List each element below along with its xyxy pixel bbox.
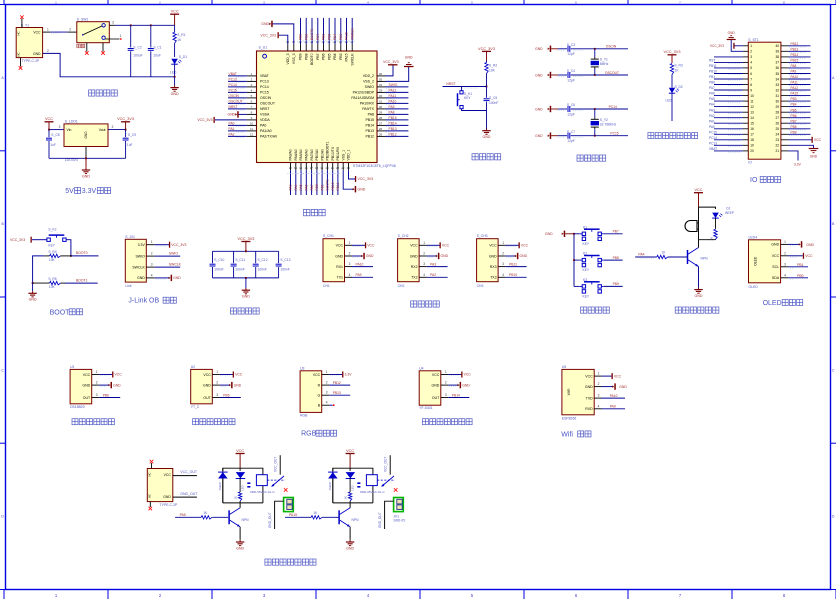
io pin 27 PB6 [781, 114, 811, 119]
svg-text:K3: K3 [583, 278, 587, 282]
buzzer B1 [685, 221, 699, 232]
connector LED4 OLED body [749, 235, 781, 289]
svg-text:VDD_2: VDD_2 [363, 74, 374, 78]
svg-text:22: 22 [336, 166, 340, 170]
svg-text:PA9: PA9 [356, 273, 362, 277]
svg-text:VCC_OUT: VCC_OUT [274, 457, 278, 472]
caption 继电器控制电路 [265, 559, 271, 565]
wire PA15 base net [285, 511, 339, 519]
ch1 pin 1 VCC [345, 241, 376, 249]
relay LED PA5 [236, 472, 246, 490]
svg-text:VCC: VCC [367, 244, 375, 248]
svg-text:2: 2 [349, 252, 351, 256]
svg-text:LED: LED [240, 485, 244, 490]
svg-text:PA3/A0: PA3/A0 [289, 149, 293, 160]
svg-text:KEY: KEY [48, 244, 55, 248]
wire LDO input [48, 125, 64, 131]
power flag VCC_3V3 indicator [664, 50, 681, 63]
svg-text:DS18B20: DS18B20 [70, 405, 85, 409]
io pin 11 PA5 [709, 97, 748, 102]
svg-text:25: 25 [775, 127, 779, 131]
svg-text:VCC: VCC [585, 374, 593, 378]
svg-text:3.3V: 3.3V [794, 163, 802, 167]
module U5 ESP8266 body [562, 365, 594, 420]
svg-text:Vin: Vin [67, 128, 72, 132]
svg-text:PB1: PB1 [709, 75, 715, 79]
svg-text:100nF: 100nF [489, 101, 498, 105]
mcu pin 23 VSS_1 [341, 163, 345, 171]
power flag VCC_3V3 at VDD_1 [349, 170, 374, 182]
svg-text:30: 30 [775, 99, 779, 103]
connector TYPE-C-2P relay power [147, 460, 178, 511]
ch3 pin 1 VCC [498, 241, 529, 249]
power flag VCC_3V3 at VDD_2 [383, 60, 399, 76]
mcu pin 36 VDD_2 [377, 72, 386, 76]
wire PB8 net [604, 256, 623, 260]
svg-text:2: 2 [112, 125, 114, 129]
svg-text:23: 23 [341, 166, 345, 170]
svg-text:PA9/TX: PA9/TX [362, 107, 374, 111]
svg-text:12pF: 12pF [567, 139, 575, 143]
ch1 pin 4 PA9 [345, 273, 374, 278]
relay coil resistor 1K PA5 [234, 478, 242, 503]
svg-text:GND: GND [806, 243, 814, 247]
U1 pin 2 GND [92, 381, 121, 389]
svg-text:PB0: PB0 [797, 274, 804, 278]
svg-text:2: 2 [326, 381, 328, 385]
U3 pin 4 DOT [322, 401, 335, 406]
svg-text:33: 33 [379, 88, 383, 92]
svg-text:SRD-05VDC-SL-C: SRD-05VDC-SL-C [250, 490, 276, 494]
io pin 26 PB7 [781, 119, 811, 124]
ground bracket at VSSA pin 8 [227, 111, 246, 117]
mcu pin 32 PA11/USB/DM [377, 94, 408, 99]
svg-text:VCC: VCC [115, 373, 123, 377]
io pin 23 power [781, 139, 789, 141]
ch2 pin 2 GND [419, 252, 448, 260]
io pin 3 stub [743, 56, 748, 58]
svg-text:PB11: PB11 [509, 262, 517, 266]
svg-text:PB0/A0: PB0/A0 [315, 149, 319, 161]
svg-text:12pF: 12pF [567, 112, 575, 116]
ch3 pin 4 PB10 [498, 273, 526, 278]
svg-text:GND: GND [483, 135, 491, 139]
svg-text:PB2/BOOT1: PB2/BOOT1 [326, 142, 330, 161]
ground GND reset [482, 111, 491, 140]
svg-text:GND_OUT: GND_OUT [268, 512, 272, 528]
svg-text:PB5: PB5 [791, 108, 797, 112]
wifi pin 4 PA9 [594, 404, 625, 409]
svg-text:36: 36 [379, 72, 383, 76]
svg-text:PC13: PC13 [709, 141, 717, 145]
pushbutton K2 KEY [574, 252, 604, 272]
svg-text:VDD_3: VDD_3 [286, 53, 290, 64]
mcu pin 48 VDD_3 [286, 40, 290, 51]
svg-text:PB15: PB15 [791, 59, 799, 63]
svg-text:PA10: PA10 [791, 75, 799, 79]
svg-text:PC14: PC14 [229, 83, 237, 87]
U4 pin 2 GND [441, 381, 470, 389]
svg-text:13: 13 [289, 166, 293, 170]
svg-text:5V: 5V [65, 188, 74, 195]
svg-text:26: 26 [775, 122, 779, 126]
transistor emitter ground PA15 [346, 527, 355, 551]
io pin 6 PB10 [709, 70, 748, 75]
svg-text:PC15: PC15 [260, 91, 269, 95]
svg-text:1uF: 1uF [127, 143, 133, 147]
svg-text:PB5: PB5 [327, 34, 331, 40]
io pin 40 PB12 [781, 42, 811, 47]
svg-text:LED4: LED4 [749, 235, 758, 239]
svg-text:S_D2: S_D2 [675, 85, 683, 89]
svg-text:S_R1: S_R1 [177, 33, 185, 37]
power flag VCC at LDO input [45, 117, 54, 129]
resistor S_R1 1K [173, 25, 186, 57]
svg-text:4: 4 [784, 273, 786, 277]
svg-text:GND: GND [410, 254, 418, 258]
module U1 body [70, 365, 92, 409]
svg-text:GND: GND [173, 276, 181, 280]
svg-text:1K: 1K [234, 496, 238, 500]
svg-text:PA7: PA7 [709, 86, 715, 90]
jlink pin 2 SWIO [146, 252, 180, 257]
mcu pin 17 PA7/A0 [310, 163, 314, 196]
power flag VCC relay PA15 [346, 449, 355, 468]
svg-text:PA15: PA15 [345, 32, 349, 40]
svg-text:PA0: PA0 [709, 125, 715, 129]
svg-text:S_C9: S_C9 [128, 133, 136, 137]
svg-text:40: 40 [775, 44, 779, 48]
wire net PC14 [594, 105, 628, 110]
mcu pin 24 VDD_1 [347, 163, 351, 171]
svg-text:2: 2 [216, 381, 218, 385]
mcu pin 31 PA10/RX [377, 99, 408, 104]
U2 pin 2 GND [212, 381, 241, 389]
svg-text:28: 28 [379, 116, 383, 120]
io pin 16 PA0 [709, 125, 748, 130]
svg-text:PB6: PB6 [322, 53, 326, 60]
svg-text:GND: GND [29, 298, 37, 302]
wire alarm top node [699, 207, 716, 240]
ground bracket S_C6 row [535, 106, 567, 112]
svg-text:PA1: PA1 [709, 119, 715, 123]
ground bracket keys [545, 231, 574, 237]
svg-text:GND: GND [366, 254, 374, 258]
wire emitter to ground alarm [698, 267, 700, 288]
svg-text:20: 20 [326, 166, 330, 170]
capacitor S_C13 100nF [276, 251, 291, 278]
svg-text:1: 1 [216, 370, 218, 374]
svg-text:100nF: 100nF [258, 267, 267, 271]
transistor NPN relay PA15 [339, 508, 359, 527]
svg-text:17: 17 [750, 133, 754, 137]
svg-text:S_U1: S_U1 [259, 46, 268, 50]
svg-text:100nF: 100nF [235, 267, 244, 271]
svg-text:S_CH2: S_CH2 [398, 234, 409, 238]
svg-text:PC15: PC15 [229, 88, 237, 92]
capacitor S_C4 12pF [557, 69, 595, 82]
svg-text:D1: D1 [726, 207, 730, 211]
svg-text:VCC: VCC [203, 373, 211, 377]
svg-text:PA10: PA10 [610, 394, 618, 398]
svg-text:GND: GND [728, 31, 736, 35]
svg-text:100nF: 100nF [280, 267, 289, 271]
svg-text:PA1/A0: PA1/A0 [260, 129, 272, 133]
svg-text:PB14: PB14 [365, 124, 374, 128]
svg-text:PB14: PB14 [389, 121, 397, 125]
svg-text:PA10/RX: PA10/RX [360, 102, 375, 106]
svg-text:34: 34 [379, 83, 383, 87]
svg-text:SDA: SDA [772, 276, 780, 280]
svg-text:U5: U5 [562, 365, 566, 369]
io pin 1 VCC_3V3 [710, 43, 748, 49]
svg-text:GND: GND [84, 131, 88, 139]
ground GND alarm [698, 287, 700, 289]
svg-text:ESP8266: ESP8266 [562, 416, 576, 420]
svg-text:GND: GND [441, 254, 449, 258]
wire PA5 base net [175, 511, 228, 519]
wire PA4 base [635, 250, 687, 258]
module U2 body [191, 365, 213, 409]
svg-text:LED: LED [666, 99, 673, 103]
svg-text:PB13: PB13 [389, 127, 397, 131]
svg-text:PA7/A0: PA7/A0 [310, 149, 314, 160]
svg-text:SCL: SCL [772, 265, 779, 269]
ch3 pin 2 GND [498, 252, 527, 260]
svg-text:3.3V: 3.3V [345, 373, 353, 377]
svg-text:RGB: RGB [301, 431, 317, 438]
caption 晶振电路 [577, 155, 583, 161]
relay coil dashed link PA15 [377, 479, 395, 481]
io pin 7 PB1 [709, 75, 748, 80]
oled pin 3 PB1 [781, 262, 808, 267]
svg-text:NPN: NPN [352, 518, 360, 522]
pushbutton S_K2 KEY [47, 228, 66, 248]
io pin 35 PA9 [781, 70, 811, 75]
no-connect bottom pin of S_T1 [19, 58, 23, 70]
svg-text:GND: GND [203, 383, 211, 387]
U3 pin 2 PB12 [322, 381, 351, 386]
svg-text:31: 31 [775, 94, 779, 98]
wire S_T1 VCC to switch [43, 28, 77, 34]
svg-text:PA7: PA7 [310, 184, 314, 190]
ground GND power circuit [170, 77, 179, 96]
svg-text:OUT: OUT [83, 396, 91, 400]
svg-text:1: 1 [423, 241, 425, 245]
svg-text:BOOT0: BOOT0 [76, 251, 88, 255]
svg-text:CH1: CH1 [323, 284, 330, 288]
svg-text:PB14: PB14 [452, 393, 460, 397]
svg-text:GND: GND [137, 276, 145, 280]
ground bracket to VSS_3 [261, 21, 294, 44]
mcu pin 8 VSSA [247, 110, 257, 114]
svg-text:3: 3 [445, 393, 447, 397]
switch bottom no-connect pins [85, 43, 105, 55]
svg-text:2: 2 [502, 252, 504, 256]
svg-text:VCC: VCC [521, 244, 529, 248]
svg-text:LED: LED [350, 485, 354, 490]
io pin 9 PA7 [709, 86, 748, 91]
svg-text:27: 27 [775, 116, 779, 120]
io pin 21 wire to 3.3V [789, 151, 802, 167]
svg-text:OSCIN: OSCIN [606, 45, 617, 49]
wire VCC_OUT net [173, 470, 198, 476]
svg-text:4: 4 [750, 61, 752, 65]
relay frame wires PA5 [223, 468, 263, 508]
capacitor S_C6 12pF [557, 103, 595, 116]
svg-text:S_C5: S_C5 [489, 96, 497, 100]
svg-text:VCC_3V3: VCC_3V3 [260, 33, 276, 37]
svg-text:3: 3 [216, 393, 218, 397]
svg-text:17: 17 [310, 166, 314, 170]
svg-text:PB8: PB8 [613, 256, 619, 260]
svg-text:TX2: TX2 [411, 276, 417, 280]
svg-text:PA15: PA15 [345, 53, 349, 61]
svg-text:VCC: VCC [346, 449, 354, 453]
grid dashes chip top [297, 40, 355, 42]
wire LDO output [108, 125, 127, 131]
svg-text:PB12: PB12 [389, 132, 397, 136]
io pin 25 PB8 [781, 125, 811, 130]
svg-text:VCC_3V3: VCC_3V3 [358, 177, 374, 181]
svg-text:10: 10 [250, 121, 254, 125]
svg-text:PB11: PB11 [336, 183, 340, 191]
svg-text:GND: GND [810, 155, 818, 159]
ground GND filter [242, 278, 251, 299]
svg-text:PA4: PA4 [709, 103, 715, 107]
wifi pin 3 PA10 [594, 394, 625, 399]
svg-text:J-Link OB: J-Link OB [128, 298, 159, 305]
svg-text:VCC: VCC [336, 244, 344, 248]
svg-text:PC15: PC15 [610, 132, 618, 136]
capacitor S_C10 100nF [210, 251, 225, 278]
svg-text:YT_C: YT_C [191, 405, 200, 409]
svg-text:IO: IO [750, 177, 758, 184]
svg-text:22: 22 [775, 144, 779, 148]
mcu pin 18 PB0/A0 [315, 163, 319, 196]
svg-text:1: 1 [326, 370, 328, 374]
svg-text:S_C11: S_C11 [235, 258, 245, 262]
svg-text:NC: NC [17, 52, 21, 56]
mcu pin 11 PA1/A0 [228, 127, 257, 132]
wire key to BOOT0 node [66, 240, 72, 257]
svg-text:28: 28 [775, 111, 779, 115]
LED S_D1 [170, 55, 187, 78]
relay coil resistor 1K PA15 [344, 478, 352, 503]
svg-text:PB0: PB0 [709, 81, 715, 85]
caption 液体触发模块 [193, 419, 199, 425]
ch1 pin 3 PA10 [345, 262, 374, 267]
svg-text:PB3: PB3 [339, 53, 343, 60]
svg-text:U1: U1 [70, 365, 74, 369]
io pin 4 RST [709, 59, 748, 64]
crystal S_Y1 8MHz [591, 49, 609, 75]
io pin 33 PA11 [781, 81, 811, 86]
svg-text:VSS_2: VSS_2 [363, 80, 374, 84]
svg-text:PA3: PA3 [430, 262, 436, 266]
svg-text:OSCOUT: OSCOUT [605, 71, 619, 75]
svg-text:SWIO: SWIO [389, 83, 398, 87]
label 开关 under switch [77, 44, 81, 48]
svg-text:S_C1: S_C1 [153, 45, 161, 49]
svg-text:PC14: PC14 [709, 136, 717, 140]
svg-text:RST: RST [709, 59, 715, 63]
LED D1 BEEP [712, 207, 735, 219]
U2 pin 1 VCC [212, 370, 243, 378]
svg-text:15: 15 [299, 166, 303, 170]
svg-text:4: 4 [598, 404, 600, 408]
crystal S_Y2 32.768KHz [591, 109, 617, 136]
io pin 13 PA3 [709, 108, 748, 113]
svg-text:OSCIN: OSCIN [260, 96, 272, 100]
caption 程序运行指示灯 [648, 133, 654, 139]
svg-text:PB12: PB12 [791, 42, 799, 46]
mcu right pin names [351, 74, 374, 139]
svg-text:14: 14 [294, 166, 298, 170]
svg-text:RGB: RGB [300, 413, 308, 417]
svg-text:PA12/USBDP: PA12/USBDP [353, 91, 375, 95]
ch2 pin 1 VCC [419, 241, 450, 249]
grid dashes chip bottom [287, 173, 341, 175]
oled pin 4 PB0 [781, 273, 808, 278]
svg-text:3: 3 [326, 391, 328, 395]
svg-text:BOOT1: BOOT1 [326, 179, 330, 190]
svg-text:BOOT1: BOOT1 [76, 278, 88, 282]
svg-text:TX3: TX3 [490, 276, 496, 280]
svg-text:GND: GND [520, 254, 528, 258]
power flag VCC [170, 10, 179, 26]
mcu pin 13 PA3/A0 [289, 163, 293, 196]
svg-text:K2: K2 [583, 252, 587, 256]
svg-text:KEY: KEY [583, 268, 590, 272]
svg-text:3: 3 [112, 21, 114, 25]
io pin 23 wire to VCC [789, 137, 822, 143]
mcu pin 29 PA8 [377, 110, 408, 115]
svg-text:9: 9 [750, 88, 752, 92]
svg-text:12: 12 [750, 105, 754, 109]
ground GND LDO [82, 158, 91, 178]
svg-text:2: 2 [151, 252, 153, 256]
svg-text:2: 2 [750, 50, 752, 54]
svg-text:PA9: PA9 [389, 105, 395, 109]
svg-text:4: 4 [423, 273, 425, 277]
resistor S_R4 10K [44, 250, 71, 262]
svg-text:10K: 10K [49, 258, 56, 262]
caption 滤波电路 [231, 308, 237, 314]
io pin 5 PB11 [709, 64, 748, 69]
svg-text:PB13: PB13 [333, 391, 341, 395]
oled pin 1 GND [781, 240, 815, 248]
svg-text:PC13: PC13 [229, 77, 237, 81]
svg-text:PB5: PB5 [327, 53, 331, 60]
svg-text:PB3: PB3 [791, 97, 797, 101]
mcu pin 41 PB5 [327, 18, 331, 51]
mcu pin 6 OSCOUT [228, 99, 257, 104]
svg-text:PB1: PB1 [320, 184, 324, 190]
svg-text:PB6: PB6 [103, 393, 109, 397]
svg-text:OSCIN: OSCIN [229, 94, 240, 98]
svg-text:VCC: VCC [171, 10, 179, 14]
svg-text:S_R2: S_R2 [489, 64, 497, 68]
capacitor S_C5 100nF [484, 87, 499, 111]
svg-text:VCC: VCC [432, 373, 440, 377]
svg-text:1N4007: 1N4007 [328, 481, 332, 491]
svg-text:100uF: 100uF [133, 54, 142, 58]
terminal block green PA15 [394, 498, 404, 512]
mcu pin 37 SWCLK [350, 18, 354, 51]
svg-text:4: 4 [502, 273, 504, 277]
svg-text:1N4007: 1N4007 [218, 481, 222, 491]
